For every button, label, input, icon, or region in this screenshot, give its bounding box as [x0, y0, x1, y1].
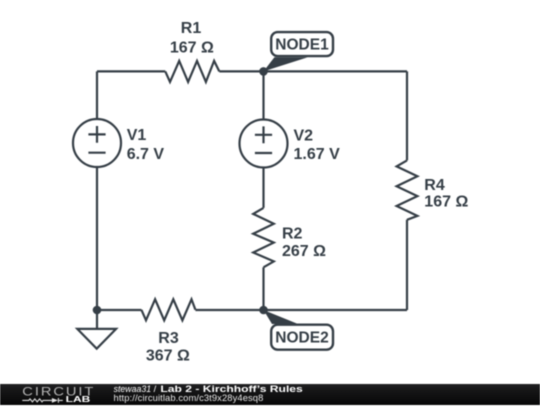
CircuitLab logo wordmark LAB — [66, 395, 91, 404]
R2 value label — [282, 243, 326, 260]
R2 name label — [282, 225, 303, 242]
svg-text:367 Ω: 367 Ω — [146, 348, 190, 365]
svg-text:267 Ω: 267 Ω — [282, 243, 326, 260]
V2 name label — [294, 128, 314, 145]
wire right rail lower: R4 bottom to bottom-right corner — [406, 220, 408, 310]
wire bottom-left: ground junction to R3 left — [97, 309, 141, 311]
svg-text:NODE1: NODE1 — [275, 37, 329, 54]
svg-text:R3: R3 — [158, 330, 179, 347]
wire middle: V2 bottom to R2 top — [262, 168, 264, 208]
voltage source V2 — [240, 120, 288, 168]
svg-text:R1: R1 — [181, 20, 202, 37]
footer url line — [114, 392, 264, 403]
svg-text:R4: R4 — [424, 177, 445, 194]
R1 value label — [170, 40, 214, 57]
svg-text:167 Ω: 167 Ω — [170, 40, 214, 57]
wire left rail lower: V1 bottom to ground junction — [96, 167, 98, 310]
svg-text:R2: R2 — [282, 225, 303, 242]
wire top: R1 right through NODE1 to top-right corner — [219, 70, 407, 72]
CircuitLab logo squiggle: wire, resistor, diode — [22, 398, 63, 403]
V1 name label — [127, 127, 147, 144]
node label NODE1 box — [271, 32, 333, 56]
ground junction dot — [93, 306, 102, 315]
svg-text:NODE2: NODE2 — [275, 330, 328, 347]
wire bottom: R3 right through NODE2 to bottom-right corner — [195, 309, 407, 311]
resistor R3 — [141, 299, 195, 320]
wire right rail upper: corner to R4 top — [406, 71, 408, 160]
R4 value label — [424, 194, 468, 211]
resistor R4 — [397, 160, 418, 219]
CircuitLab logo wordmark CIRCUIT — [22, 385, 95, 398]
R1 name label — [181, 20, 202, 37]
wire middle lower: R2 bottom to NODE2 — [262, 267, 264, 310]
ground — [77, 310, 116, 349]
wire top-left: V1 top to R1 left — [97, 70, 165, 72]
svg-text:1.67 V: 1.67 V — [294, 146, 341, 163]
R3 value label — [146, 348, 190, 365]
V2 value label — [294, 146, 341, 163]
V1 value label — [127, 146, 165, 163]
svg-text:6.7 V: 6.7 V — [127, 146, 165, 163]
voltage source V1 — [73, 119, 121, 167]
node NODE2 junction dot — [259, 306, 268, 315]
wire left rail upper: corner down to V1 top — [96, 71, 98, 119]
node label NODE2 pointer — [264, 310, 299, 324]
svg-text:V2: V2 — [294, 128, 314, 145]
resistor R2 — [253, 208, 274, 267]
footer title line — [114, 384, 303, 394]
node label NODE2 box — [271, 325, 333, 350]
svg-text:167 Ω: 167 Ω — [424, 194, 468, 211]
wire middle upper: NODE1 to V2 top — [262, 71, 264, 119]
svg-text:LAB: LAB — [66, 395, 91, 404]
svg-text:http://circuitlab.com/c3t9x28y: http://circuitlab.com/c3t9x28y4esq8 — [114, 392, 264, 403]
R3 name label — [158, 330, 179, 347]
svg-text:V1: V1 — [127, 127, 147, 144]
node NODE1 junction dot — [259, 67, 268, 76]
resistor R1 — [165, 61, 219, 82]
node label NODE1 pointer — [264, 57, 308, 71]
R4 name label — [424, 177, 445, 194]
